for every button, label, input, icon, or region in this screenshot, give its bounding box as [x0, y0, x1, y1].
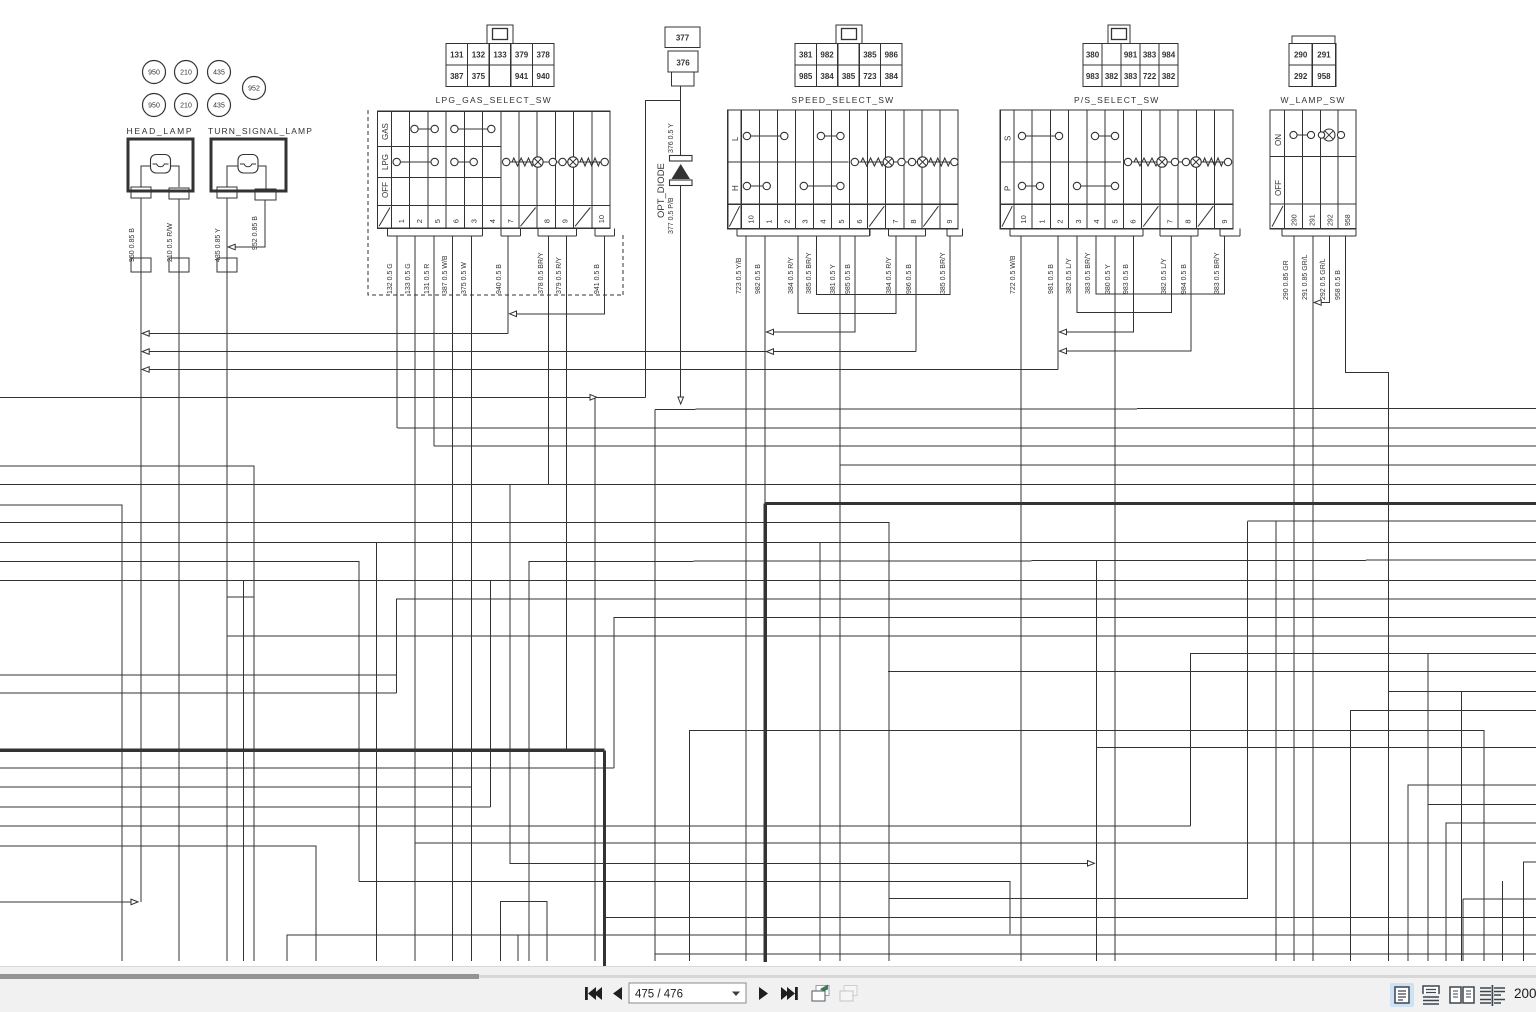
svg-text:983 0.5 B: 983 0.5 B: [1123, 264, 1130, 294]
connector circle 950: [143, 94, 166, 117]
svg-text:952 0.85 B: 952 0.85 B: [252, 216, 259, 250]
wire x490 drop: [490, 581, 492, 808]
wire 380: [1114, 236, 1116, 961]
bus y747 branch: [1097, 747, 1536, 749]
svg-text:292 0.5 GR/L: 292 0.5 GR/L: [1320, 258, 1327, 300]
wire 376 branch: [646, 101, 681, 398]
wire 981: [1057, 236, 1059, 370]
bus y863: [510, 485, 1091, 864]
wire 376: [680, 86, 682, 155]
svg-text:291: 291: [1309, 214, 1316, 226]
wire: [171, 166, 180, 187]
svg-text:375: 375: [472, 72, 486, 81]
svg-text:940: 940: [537, 72, 551, 81]
svg-text:384 0.5 R/Y: 384 0.5 R/Y: [788, 257, 795, 294]
svg-text:3: 3: [801, 219, 810, 223]
resistor chain LPG row: [506, 161, 605, 163]
svg-text:958: 958: [1317, 72, 1331, 81]
bus y675: [0, 674, 397, 676]
contacts P row: [1022, 185, 1040, 187]
svg-text:8: 8: [542, 219, 551, 223]
wire 132 bus y428: [398, 427, 1536, 429]
pin bar: [1282, 235, 1356, 237]
wire x1247 drop: [1246, 522, 1248, 900]
svg-text:5: 5: [433, 219, 442, 223]
stair y692: [1389, 691, 1536, 693]
svg-text:4: 4: [819, 219, 828, 223]
pin 210: [169, 188, 189, 199]
contacts S row: [1022, 135, 1059, 137]
wire: [227, 166, 238, 187]
svg-text:132 0.5 G: 132 0.5 G: [387, 263, 394, 294]
junction arrow 984-981: [1060, 348, 1067, 354]
wire 290 branch jog: [1247, 520, 1536, 522]
diode symbol: [670, 156, 693, 162]
svg-text:435: 435: [213, 103, 225, 110]
svg-text:1: 1: [397, 219, 406, 223]
wire 983 jog: [1063, 236, 1134, 332]
svg-text:723: 723: [863, 72, 877, 81]
svg-text:475 / 476: 475 / 476: [635, 989, 683, 1001]
wire 986 drop: [915, 236, 917, 352]
wire 292 jog: [1316, 236, 1330, 303]
svg-text:958 0.5 B: 958 0.5 B: [1335, 270, 1342, 300]
svg-text:131 0.5 R: 131 0.5 R: [424, 264, 431, 294]
bus y846 corner 316: [0, 846, 316, 961]
svg-text:383: 383: [1124, 72, 1138, 81]
pin bar: [501, 235, 520, 237]
svg-text:382: 382: [1105, 72, 1119, 81]
connector circle 435: [208, 94, 231, 117]
pin bar: [947, 235, 963, 237]
wire 435: [226, 198, 228, 961]
svg-text:982: 982: [820, 50, 834, 59]
first page button: [585, 987, 602, 1000]
bus y505 corner down 122: [0, 505, 122, 961]
svg-text:LPG: LPG: [381, 154, 390, 170]
svg-text:6: 6: [1129, 219, 1138, 223]
junction arrow 985-982: [767, 329, 774, 335]
svg-text:6: 6: [451, 219, 460, 223]
svg-text:981 0.5 B: 981 0.5 B: [1048, 264, 1055, 294]
svg-text:4: 4: [1092, 219, 1101, 223]
bus y693: [0, 692, 397, 694]
svg-text:TURN_SIGNAL_LAMP: TURN_SIGNAL_LAMP: [208, 126, 313, 136]
page field: [629, 983, 746, 1003]
svg-text:375 0.5 W: 375 0.5 W: [461, 262, 468, 294]
junction arrow 983-981: [1060, 329, 1067, 335]
bus y580: [0, 580, 1536, 582]
svg-text:8: 8: [1184, 219, 1193, 223]
wire 291: [1312, 236, 1314, 961]
svg-text:941 0.5 B: 941 0.5 B: [594, 264, 601, 294]
junction arrow on 950: [142, 331, 149, 337]
wire 986 bus: [144, 351, 916, 353]
thick bus y750: [0, 749, 604, 752]
bus y653: [1190, 653, 1536, 826]
svg-text:OFF: OFF: [1274, 180, 1283, 196]
svg-text:9: 9: [1220, 219, 1229, 223]
svg-text:377: 377: [676, 34, 690, 43]
svg-text:H: H: [731, 185, 740, 191]
svg-text:378 0.5 BR/Y: 378 0.5 BR/Y: [538, 252, 545, 294]
svg-text:382 0.5 L/Y: 382 0.5 L/Y: [1161, 258, 1168, 294]
svg-text:950: 950: [148, 103, 160, 110]
wire: [258, 166, 266, 189]
svg-text:OFF: OFF: [381, 182, 390, 198]
svg-text:LPG_GAS_SELECT_SW: LPG_GAS_SELECT_SW: [436, 95, 552, 105]
svg-text:984 0.5 B: 984 0.5 B: [1181, 264, 1188, 294]
bus y902 left: [0, 901, 136, 903]
bus y768: [0, 767, 614, 769]
wire x820 drop: [819, 542, 821, 961]
svg-text:131: 131: [450, 50, 464, 59]
stair y804: [1428, 804, 1536, 806]
wire 985 jog: [770, 236, 855, 332]
svg-text:384 0.5 R/Y: 384 0.5 R/Y: [886, 257, 893, 294]
two page scroll: [1480, 985, 1505, 1006]
svg-text:10: 10: [597, 215, 606, 223]
svg-text:950: 950: [148, 70, 160, 77]
svg-text:P/S_SELECT_SW: P/S_SELECT_SW: [1074, 95, 1160, 105]
wire 131 bus y446: [434, 445, 1536, 447]
resistor chain P/S: [1128, 161, 1228, 163]
connector table P/S: [1108, 25, 1130, 44]
svg-text:290: 290: [1292, 214, 1299, 226]
svg-text:6: 6: [855, 219, 864, 223]
svg-text:378: 378: [537, 50, 551, 59]
stair x1463: [1462, 899, 1464, 961]
svg-text:382: 382: [1162, 72, 1176, 81]
bus y522 corner down 889: [0, 523, 889, 961]
stair x1502: [1501, 881, 1503, 961]
svg-text:5: 5: [1110, 219, 1119, 223]
wire from junction 595: [594, 397, 596, 961]
svg-text:292: 292: [1327, 214, 1334, 226]
svg-text:133 0.5 G: 133 0.5 G: [405, 263, 412, 294]
svg-text:7: 7: [1165, 219, 1174, 223]
bus y671: [888, 670, 1536, 672]
svg-text:10: 10: [746, 215, 755, 223]
prev page button: [613, 987, 622, 1000]
junction arrow at 595: [590, 395, 597, 401]
svg-text:210 0.5 R/W: 210 0.5 R/W: [167, 223, 174, 262]
stair x1461: [1460, 692, 1462, 962]
svg-text:ON: ON: [1274, 134, 1283, 146]
pin 952: [255, 189, 276, 200]
svg-text:133: 133: [493, 50, 507, 59]
stair y823: [1446, 823, 1536, 961]
wire x518 stub: [517, 935, 519, 961]
svg-text:2: 2: [1056, 219, 1065, 223]
bus y826: [0, 825, 1190, 827]
thick bus x604: [603, 750, 606, 966]
bus y843: [415, 842, 1536, 844]
wire 378: [547, 236, 549, 485]
bridge 435-254: [227, 596, 254, 598]
svg-text:GAS: GAS: [381, 123, 390, 140]
svg-text:290: 290: [1294, 50, 1308, 59]
svg-text:381 0.5 Y: 381 0.5 Y: [830, 264, 837, 294]
svg-text:384: 384: [820, 72, 834, 81]
connector 950: [131, 258, 151, 272]
svg-text:7: 7: [506, 219, 515, 223]
svg-text:981: 981: [1124, 50, 1138, 59]
next page: [759, 987, 768, 1000]
bus y807: [0, 806, 491, 808]
stair y899: [1463, 898, 1536, 900]
bus y711 corner 1350: [1351, 711, 1536, 961]
stair y785: [1408, 785, 1536, 961]
svg-text:723 0.5 Y/B: 723 0.5 Y/B: [736, 257, 743, 294]
bus y397: [0, 396, 646, 398]
bus y542: [0, 541, 1536, 543]
svg-text:387 0.5 W/B: 387 0.5 W/B: [442, 255, 449, 294]
bus y935 corner 287: [287, 935, 1536, 961]
wire 940: [507, 236, 509, 333]
dashed box: [368, 110, 623, 295]
pin bar: [595, 235, 614, 237]
svg-text:290 0.85 GR: 290 0.85 GR: [1283, 260, 1290, 300]
svg-text:383: 383: [1143, 50, 1157, 59]
junction arrow on 950: [142, 349, 149, 355]
pin bar: [888, 235, 925, 237]
svg-text:132: 132: [472, 50, 486, 59]
svg-text:983: 983: [1086, 72, 1100, 81]
two page view: [1450, 987, 1474, 1003]
pin 435: [217, 187, 237, 198]
svg-text:9: 9: [945, 219, 954, 223]
wire 384 jog: [798, 236, 896, 313]
bus y561 left corner down 359: [0, 562, 359, 882]
bus y617: [614, 617, 1536, 768]
svg-text:383 0.5 BR/Y: 383 0.5 BR/Y: [1085, 252, 1092, 294]
svg-text:2: 2: [415, 219, 424, 223]
junction arrow 377: [678, 397, 684, 404]
connector 377: [665, 27, 700, 48]
wire 377: [680, 186, 682, 400]
svg-text:941: 941: [515, 72, 529, 81]
wire 655: [654, 409, 656, 961]
connector table W_LAMP: [1292, 36, 1335, 44]
stair x1428: [1427, 653, 1429, 961]
svg-text:376 0.5 Y: 376 0.5 Y: [668, 123, 675, 153]
svg-text:385 0.5 BR/Y: 385 0.5 BR/Y: [806, 252, 813, 294]
wire: [141, 166, 151, 187]
svg-text:291: 291: [1317, 50, 1331, 59]
wire 132: [396, 236, 398, 428]
connector circle 952: [243, 77, 266, 100]
junction arrow on 950: [131, 899, 138, 905]
svg-text:722 0.5 W/B: 722 0.5 W/B: [1010, 255, 1017, 294]
bus y561 right segment: [529, 560, 1536, 961]
svg-text:387: 387: [450, 72, 464, 81]
bus y730: [690, 730, 1485, 961]
svg-text:950 0.85 B: 950 0.85 B: [129, 228, 136, 262]
svg-text:HEAD_LAMP: HEAD_LAMP: [127, 126, 194, 136]
svg-text:435 0.85 Y: 435 0.85 Y: [215, 228, 222, 262]
wire 984 jog: [1063, 236, 1191, 351]
svg-text:1: 1: [765, 219, 774, 223]
pin bar: [1010, 235, 1143, 237]
pin bar: [737, 235, 870, 237]
wire 375: [471, 236, 473, 961]
connector table LPG: [487, 25, 513, 44]
bus y466 corner down 254: [0, 466, 254, 961]
junction arrow 941-940: [510, 311, 517, 317]
wire 723: [745, 236, 747, 961]
svg-text:2: 2: [783, 219, 792, 223]
svg-text:3: 3: [1074, 219, 1083, 223]
svg-text:210: 210: [180, 103, 192, 110]
contacts GAS row: [415, 128, 435, 130]
svg-text:952: 952: [248, 86, 260, 93]
previous view icon: [812, 985, 829, 1002]
connector circle 435: [208, 61, 231, 84]
svg-text:7: 7: [891, 219, 900, 223]
wire 950: [140, 198, 142, 902]
wire 722: [1020, 236, 1022, 961]
junction arrow 952-435: [228, 244, 235, 250]
bus y465 from 381: [840, 464, 1536, 466]
connector 210: [169, 258, 189, 272]
wire 210: [178, 199, 180, 961]
bus y485: [0, 484, 1536, 486]
connector circle 210: [175, 94, 198, 117]
svg-text:380: 380: [1086, 50, 1100, 59]
contacts LPG row: [397, 161, 435, 163]
connector 435: [217, 258, 237, 272]
junction arrow on 950: [142, 367, 149, 373]
next view icon (disabled): [840, 986, 857, 1002]
wire x243: [243, 581, 245, 962]
svg-text:435: 435: [213, 70, 225, 77]
pin bar: [1160, 235, 1198, 237]
contacts ON row: [1294, 134, 1312, 136]
svg-text:P: P: [1004, 186, 1013, 191]
svg-text:376: 376: [676, 59, 690, 68]
bus y954: [655, 953, 1536, 955]
wire 941 jog: [512, 236, 605, 314]
wire 131: [433, 236, 435, 446]
svg-text:S: S: [1004, 136, 1013, 141]
svg-text:940 0.5 B: 940 0.5 B: [496, 264, 503, 294]
svg-text:381: 381: [799, 50, 813, 59]
svg-text:OPT_DIODE: OPT_DIODE: [656, 163, 667, 218]
pin 950: [131, 187, 151, 198]
svg-text:986: 986: [885, 50, 899, 59]
bus y899 bridge: [889, 898, 1248, 900]
svg-text:380 0.5 Y: 380 0.5 Y: [1105, 264, 1112, 294]
svg-text:722: 722: [1143, 72, 1157, 81]
contacts L row: [747, 135, 784, 137]
pin bar: [388, 235, 483, 237]
wire x1276 drop: [1275, 521, 1277, 961]
svg-text:982 0.5 B: 982 0.5 B: [755, 264, 762, 294]
svg-text:985: 985: [799, 72, 813, 81]
connector circle 210: [175, 61, 198, 84]
stair x1523: [1524, 862, 1536, 961]
wire 379: [566, 236, 568, 750]
wire 958 jog to 1389: [1346, 236, 1389, 961]
junction arrow at 1095: [1088, 861, 1095, 867]
wire 981 bus: [144, 369, 1058, 371]
wire 133: [414, 236, 416, 961]
svg-text:SPEED_SELECT_SW: SPEED_SELECT_SW: [791, 95, 894, 105]
svg-text:984: 984: [1162, 50, 1176, 59]
bus y409 from OPT corner: [655, 408, 1536, 409]
bus y881 corner 1010: [359, 881, 1010, 934]
wire x376 drop: [376, 542, 378, 961]
svg-text:4: 4: [488, 219, 497, 223]
svg-text:385: 385: [842, 72, 856, 81]
svg-text:383 0.5 BR/Y: 383 0.5 BR/Y: [1214, 252, 1221, 294]
svg-text:385 0.5 BR/Y: 385 0.5 BR/Y: [940, 252, 947, 294]
wire 381: [839, 236, 841, 961]
svg-text:379 0.5 R/Y: 379 0.5 R/Y: [556, 257, 563, 294]
svg-text:10: 10: [1019, 215, 1028, 223]
wire 290: [1293, 236, 1295, 961]
junction arrow 292-291: [1314, 300, 1321, 306]
svg-text:210: 210: [180, 70, 192, 77]
svg-text:384: 384: [885, 72, 899, 81]
pin bar: [1220, 235, 1240, 237]
connector table SPEED: [836, 25, 862, 44]
wire 383 jog: [1096, 236, 1225, 294]
svg-text:377 0.5 P/B: 377 0.5 P/B: [668, 197, 675, 234]
svg-text:382 0.5 L/Y: 382 0.5 L/Y: [1066, 258, 1073, 294]
single page (selected): [1390, 983, 1414, 1007]
contacts H row: [747, 185, 767, 187]
svg-text:8: 8: [909, 219, 918, 223]
svg-text:385: 385: [863, 50, 877, 59]
bus y787: [0, 786, 472, 788]
svg-text:291 0.85 GR/L: 291 0.85 GR/L: [1302, 254, 1309, 300]
bus y636: [227, 635, 1536, 637]
connector circle 950: [143, 61, 166, 84]
svg-text:379: 379: [515, 50, 529, 59]
thick bus x765: [764, 503, 767, 962]
svg-text:5: 5: [837, 219, 846, 223]
svg-text:958: 958: [1345, 214, 1352, 226]
thick bus y503: [765, 502, 1536, 505]
junction arrow on 982: [767, 349, 774, 355]
svg-text:3: 3: [470, 219, 479, 223]
svg-text:W_LAMP_SW: W_LAMP_SW: [1280, 95, 1345, 105]
wire 387: [452, 236, 454, 961]
svg-text:986 0.5 B: 986 0.5 B: [906, 264, 913, 294]
resistor chain SPEED: [855, 161, 954, 163]
bridge y901: [500, 902, 547, 962]
connector 376: [668, 51, 698, 72]
svg-text:9: 9: [561, 219, 570, 223]
svg-text:292: 292: [1294, 72, 1308, 81]
wire 982: [764, 236, 766, 503]
wire 952 jog: [230, 200, 265, 247]
continuous scroll: [1423, 986, 1439, 1004]
wire x1096 drop: [1096, 561, 1098, 961]
connector stub: [672, 72, 695, 86]
svg-text:985 0.5 B: 985 0.5 B: [845, 264, 852, 294]
wire 940-950 bus: [144, 332, 508, 334]
wire 385 jog: [817, 236, 950, 295]
svg-text:L: L: [731, 136, 740, 141]
pin bar: [538, 235, 577, 237]
last page: [781, 987, 798, 1000]
bus y599: [397, 599, 1536, 693]
svg-text:1: 1: [1037, 219, 1046, 223]
wire 382 jog: [1077, 236, 1172, 313]
